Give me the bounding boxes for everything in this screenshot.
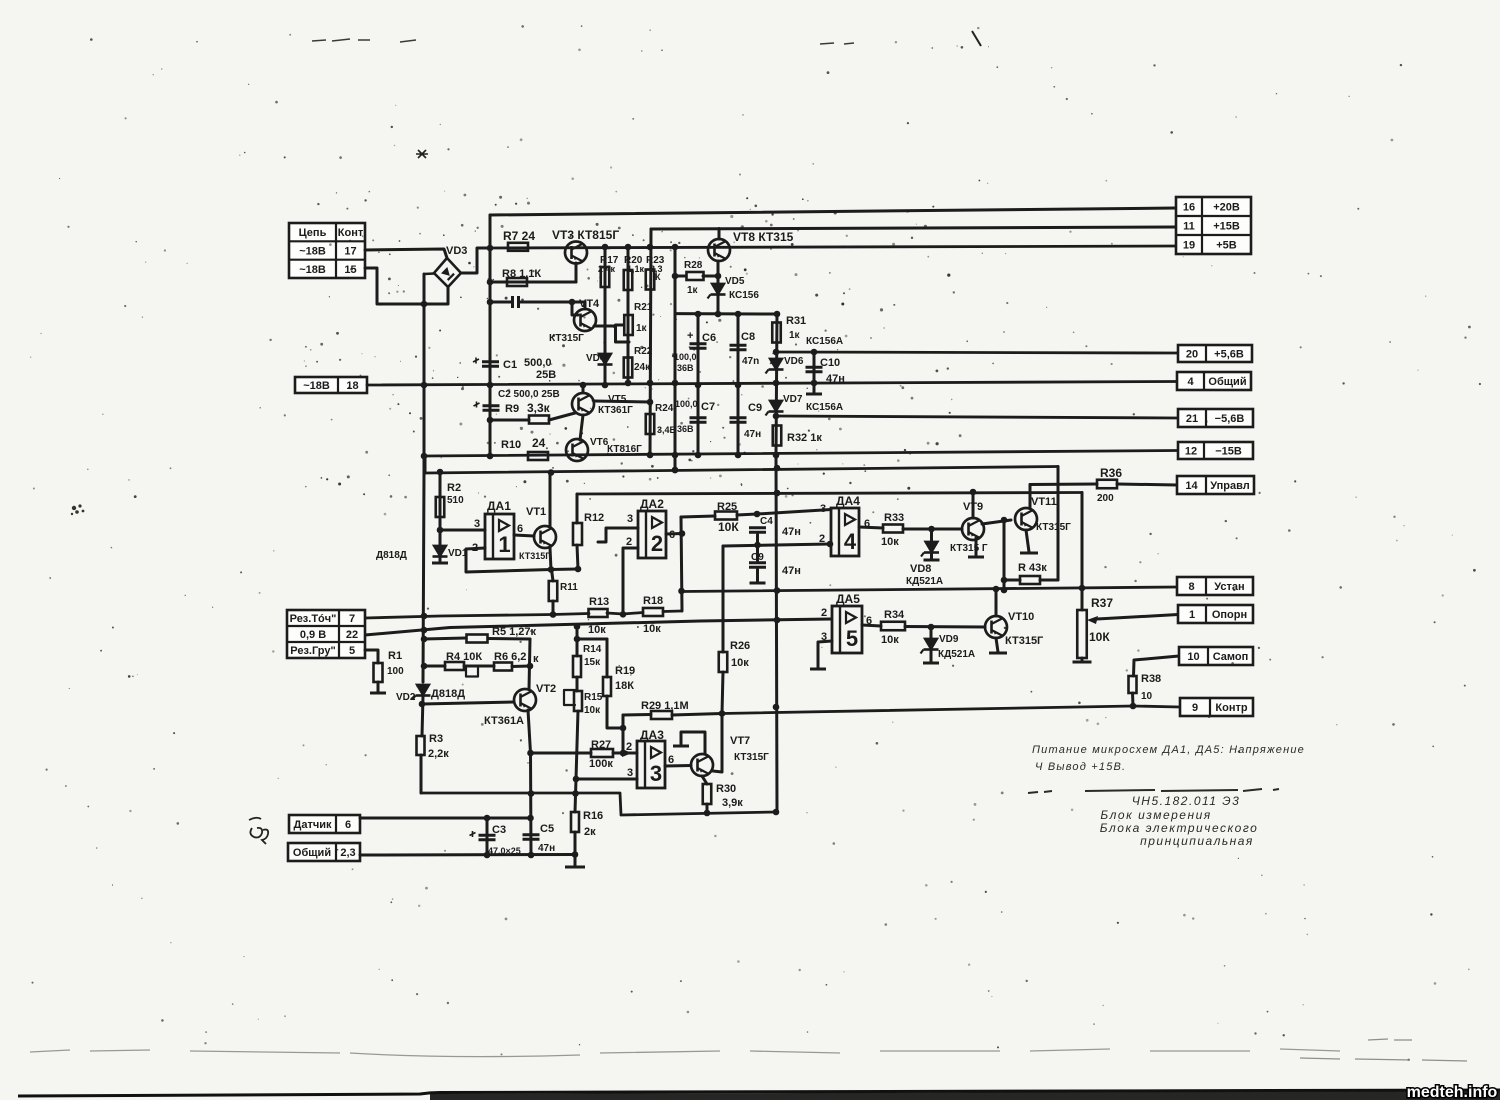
resistor R18 [643, 608, 663, 616]
resistor R27 [591, 749, 613, 757]
connector 10 samop [1179, 647, 1253, 665]
wire left bus vertical [424, 272, 434, 275]
junction dots R17 column [602, 244, 609, 389]
wire DA3 out [665, 764, 691, 768]
resistor R28 [687, 272, 704, 280]
wire DA4 pin2 line [723, 544, 830, 546]
wire R29 line [623, 713, 651, 717]
wire base line VT4 [490, 301, 511, 304]
resistor R21 [624, 315, 633, 335]
wire R19 col [606, 639, 609, 677]
wire samop [1134, 656, 1180, 676]
wire VD9 drop [930, 627, 933, 638]
wire y493 line [577, 493, 1082, 495]
wire DA5 pin3 stub [818, 641, 832, 668]
svg-text:КТ361А: КТ361А [484, 715, 524, 727]
svg-text:КТ361Г: КТ361Г [598, 405, 633, 416]
svg-text:R31: R31 [786, 315, 806, 327]
svg-text:VT2: VT2 [536, 683, 556, 695]
svg-text:24: 24 [532, 436, 546, 450]
svg-text:18К: 18К [615, 680, 634, 692]
junction VD8 [928, 526, 935, 533]
wire R19 bottom jog [607, 696, 623, 728]
svg-text:100к: 100к [589, 758, 613, 770]
diode VD4 [598, 354, 613, 365]
svg-text:4: 4 [844, 529, 857, 554]
junction VT1 emitter [548, 566, 582, 573]
wire VD8 drop [930, 529, 933, 541]
svg-text:С10: С10 [820, 357, 840, 369]
wire R30 bottom [706, 804, 709, 813]
wire R5 right [488, 637, 530, 641]
wire +5V rail [490, 246, 1176, 248]
resistor R3 [417, 736, 425, 755]
wire VT5 emitter up [582, 385, 585, 392]
svg-text:КТ315Г: КТ315Г [1036, 522, 1071, 533]
svg-text:R7 24: R7 24 [503, 229, 535, 243]
transistor VT7 [691, 754, 713, 776]
wire VT9 emitter wire [982, 520, 1011, 524]
ground stub VT9 [968, 556, 984, 559]
junction DA3 pin3 [573, 776, 580, 783]
svg-text:~18В: ~18В [299, 246, 326, 258]
wire bottom rail left [421, 793, 776, 815]
connector Obshiy pin 2,3 [288, 843, 360, 861]
svg-text:0,9 В: 0,9 В [300, 629, 326, 641]
wire R36 line [1030, 483, 1097, 487]
svg-text:С1: С1 [503, 359, 517, 371]
resistor R16 [571, 812, 579, 832]
asterisk mark [416, 150, 428, 158]
wire x776 long vertical [776, 455, 777, 812]
wire VT11 collector [1029, 485, 1032, 509]
wire VT3 emitter [575, 263, 578, 282]
junction C8 [735, 382, 742, 459]
svg-text:ДА5: ДА5 [836, 592, 860, 606]
svg-text:VT3 КТ815Г: VT3 КТ815Г [552, 228, 619, 242]
wire C10 stub [813, 383, 816, 393]
svg-text:7: 7 [349, 613, 355, 625]
svg-text:10к: 10к [643, 623, 661, 635]
junction R38 bottom [1130, 703, 1137, 710]
wire common rail [367, 382, 1177, 386]
wire R37 bottom [1081, 658, 1084, 661]
svg-text:3: 3 [650, 761, 662, 786]
wire VD9 stub [930, 650, 933, 662]
svg-text:R9: R9 [505, 403, 519, 415]
svg-text:10к: 10к [588, 624, 606, 636]
wire DA2 pin3 stub [598, 528, 638, 542]
svg-text:10К: 10К [718, 520, 739, 534]
junction DA2 out [679, 530, 686, 537]
ground stub VT7 bracket [673, 745, 689, 748]
svg-text:R12: R12 [584, 512, 604, 524]
svg-text:200: 200 [1097, 493, 1114, 504]
wire x1082 vertical [1081, 493, 1084, 611]
svg-text:VD6: VD6 [784, 356, 804, 367]
svg-text:2,2к: 2,2к [428, 748, 449, 760]
ground stub VD8 [924, 559, 940, 562]
wire left bus x=424 [423, 274, 426, 473]
op-amp DA2 [638, 511, 666, 558]
wire R31 col [776, 314, 777, 455]
resistor R35 [1020, 576, 1040, 584]
op-amp DA1 [485, 514, 514, 559]
svg-text:Опорн: Опорн [1212, 609, 1247, 621]
svg-text:VD8: VD8 [910, 563, 931, 575]
svg-text:+15В: +15В [1213, 221, 1240, 233]
svg-text:100,0: 100,0 [674, 352, 697, 362]
transistor VT1 [534, 526, 556, 548]
svg-text:ДА2: ДА2 [640, 497, 664, 511]
diode VD1 [433, 546, 448, 557]
svg-text:принципиальная: принципиальная [1140, 834, 1254, 848]
wire C9b col [756, 545, 759, 561]
extra shadow fragment right [1300, 1039, 1467, 1061]
resistor R29 [651, 711, 672, 719]
junction R11 [550, 611, 557, 618]
resistor R4 [445, 662, 464, 670]
svg-text:VT10: VT10 [1008, 611, 1034, 623]
arrow R37 wiper [1087, 616, 1098, 624]
wire datchik [360, 817, 531, 820]
wire feedback to R12 [551, 568, 578, 572]
wire VD8 stub [930, 553, 933, 559]
transistor VT9 [962, 518, 984, 540]
wire -5.6V rail [776, 416, 1178, 418]
resistor R8 [507, 278, 527, 286]
resistor R38 [1129, 676, 1137, 693]
wire DA1 out [514, 535, 534, 536]
capacitor C5 [523, 835, 540, 840]
wire R5 line [424, 638, 466, 639]
svg-text:КТ315 Г: КТ315 Г [950, 543, 988, 554]
wire VT7 collector bracket [681, 732, 705, 754]
wire C4 bottom [756, 535, 759, 546]
svg-text:2: 2 [626, 536, 632, 548]
svg-text:VT11: VT11 [1031, 496, 1057, 508]
zener VD6 [766, 359, 784, 374]
svg-text:R24: R24 [655, 403, 674, 414]
svg-text:36В: 36В [677, 363, 694, 373]
svg-text:10: 10 [1187, 651, 1199, 663]
capacitor C3 [470, 831, 496, 840]
wire R6 right [512, 665, 530, 669]
wire R14 col [576, 627, 579, 657]
resistor R26 [719, 652, 728, 672]
junction DA4 pin2 [827, 541, 834, 548]
ground stub VD9 [923, 662, 939, 665]
ground stub R16 [565, 866, 585, 869]
wire DA2 pin2 drop [623, 548, 638, 614]
wire R28 right [703, 275, 718, 278]
wire obshiy [360, 853, 575, 857]
svg-text:3: 3 [627, 513, 633, 525]
wire R29 left drop [622, 715, 625, 753]
svg-text:22: 22 [346, 629, 358, 641]
junction dots rails left [421, 613, 581, 634]
svg-text:3: 3 [820, 503, 826, 515]
junction DA2 pin2 [620, 611, 627, 618]
connector 21 -5.6V [1178, 409, 1253, 427]
resistor R15 [574, 691, 582, 711]
junction R2 col [437, 527, 444, 534]
transistor VT6 [566, 439, 588, 461]
svg-text:R18: R18 [643, 595, 663, 607]
svg-text:R34: R34 [884, 609, 905, 621]
wire R36 right [1117, 484, 1177, 485]
svg-text:1к: 1к [636, 323, 648, 334]
wire DA2 out [666, 532, 682, 536]
connector Datchik pin6 [289, 815, 360, 833]
wire R8 [490, 281, 576, 284]
connector 4 obshiy [1177, 372, 1251, 390]
junction C10 [811, 349, 818, 387]
connector 12 -15V [1178, 442, 1253, 459]
note underline [1028, 789, 1279, 793]
resistor R22 [624, 358, 633, 378]
wire VT11 emitter [1026, 530, 1029, 552]
svg-text:VT7: VT7 [730, 735, 750, 747]
wire R35 node drop [1003, 520, 1006, 590]
capacitor C9 [730, 418, 747, 423]
wire DA1 pin3 [440, 529, 485, 532]
wire R11 top [552, 570, 554, 582]
connector 14 upravl [1177, 476, 1254, 494]
svg-text:КС156А: КС156А [806, 402, 843, 413]
svg-text:R19: R19 [615, 665, 635, 677]
wire rail y314 [675, 312, 777, 315]
svg-text:47n: 47n [742, 356, 759, 367]
svg-text:R5 1,27к: R5 1,27к [492, 626, 537, 638]
svg-text:+20В: +20В [1213, 202, 1240, 214]
ground stub VT11 [1020, 552, 1038, 555]
wire DA5 out [862, 625, 881, 626]
connector pin 18 ~18V [295, 377, 367, 393]
wire R16 col [575, 779, 576, 812]
wire rail rez-toch [365, 614, 589, 619]
wire R27 to pin2 [613, 752, 637, 755]
resistor R32 [773, 426, 782, 446]
wire main vertical x=490 [489, 215, 492, 456]
connector 9 kontr [1180, 698, 1253, 716]
svg-text:47н: 47н [744, 429, 761, 440]
svg-text:R10: R10 [501, 439, 521, 451]
svg-text:R30: R30 [716, 783, 736, 795]
resistor R14 [573, 656, 581, 677]
svg-text:6: 6 [668, 754, 674, 766]
arrow into DA3 pin2 [622, 749, 632, 757]
transistor VT10 [985, 616, 1007, 638]
svg-text:VD4: VD4 [586, 353, 606, 364]
svg-text:С7: С7 [701, 401, 715, 413]
capacitor C4 [749, 528, 766, 533]
wire x682 vertical [681, 517, 682, 611]
resistor R31 [772, 323, 781, 343]
svg-text:~18В: ~18В [303, 380, 330, 392]
wire C6 col [697, 314, 700, 455]
svg-text:+5,6В: +5,6В [1214, 349, 1244, 361]
svg-text:R33: R33 [884, 512, 904, 524]
wire DA4 out [859, 527, 883, 528]
svg-text:2: 2 [821, 607, 827, 619]
svg-text:КТ816Г: КТ816Г [607, 444, 642, 455]
resistor R17 [601, 267, 610, 287]
wire VT4 emitter [594, 325, 615, 328]
smudge top left margin [312, 39, 854, 44]
wire left bus lower2 [422, 696, 423, 736]
junction dots left bus [421, 301, 428, 460]
junction C4 top [754, 511, 761, 518]
wire R29 right [672, 714, 722, 716]
bottom right black bar [430, 1091, 1500, 1100]
wire ustan rail [681, 587, 1178, 592]
svg-text:VD3: VD3 [446, 245, 467, 257]
zener VD7 [766, 401, 784, 416]
svg-text:VD5: VD5 [725, 276, 745, 287]
junction ustan rail [993, 585, 1086, 593]
svg-text:Общий: Общий [293, 847, 331, 859]
wire pin17 to bridge VD3 top [365, 249, 447, 258]
wire VT5 collector right [594, 401, 650, 402]
junction R26 bottom [719, 710, 726, 717]
wire VT7 emitter [702, 776, 707, 784]
connector Rez/0.9V/RezGru [287, 610, 365, 658]
svg-text:ДА1: ДА1 [487, 499, 511, 513]
svg-text:КТ315Г: КТ315Г [734, 752, 769, 763]
svg-text:9: 9 [1192, 702, 1198, 714]
resistor R24 [646, 414, 655, 434]
svg-text:+5В: +5В [1216, 240, 1237, 252]
capacitor C9b [749, 563, 766, 568]
wire oporn line [1097, 615, 1178, 620]
resistor R5 [467, 635, 488, 643]
svg-text:С9: С9 [751, 552, 764, 563]
transistor VT11 [1015, 508, 1037, 530]
svg-text:С2 500,0 25В: С2 500,0 25В [498, 389, 560, 400]
svg-text:С9: С9 [748, 402, 762, 414]
ink blob left [71, 504, 85, 515]
wire x530 vert upper [529, 639, 530, 689]
svg-text:1: 1 [1189, 609, 1195, 621]
junction dots rail314 [695, 311, 781, 318]
resistor R34 [881, 622, 905, 631]
wire VT10 emitter [996, 638, 998, 652]
svg-text:R11: R11 [560, 582, 578, 593]
wire R12 top [576, 494, 579, 523]
svg-text:5: 5 [846, 626, 858, 651]
svg-text:Конт: Конт [338, 227, 364, 239]
svg-text:Устан: Устан [1214, 581, 1244, 593]
ground stub R37 [1073, 661, 1092, 664]
svg-text:17: 17 [344, 246, 356, 258]
svg-text:10к: 10к [881, 536, 899, 548]
svg-text:Датчик: Датчик [294, 819, 332, 831]
svg-text:16: 16 [1183, 202, 1195, 214]
svg-text:15к: 15к [584, 657, 601, 668]
resistor R19 [603, 677, 611, 696]
svg-text:R38: R38 [1141, 673, 1161, 685]
wire R4 line [424, 665, 445, 668]
wire VT4 base jog [572, 302, 578, 315]
wire C10 col [813, 352, 816, 383]
wire R21 wiper jog [616, 325, 630, 342]
bottom page edge dark line [18, 1090, 1500, 1096]
svg-text:ЧН5.182.011 Э3: ЧН5.182.011 Э3 [1132, 794, 1241, 808]
wire R26 col [722, 546, 725, 652]
wire VT1 collector [549, 473, 552, 526]
junction dots x=490 [487, 245, 494, 460]
resistor R13 [589, 609, 608, 617]
svg-text:10к: 10к [731, 657, 749, 669]
svg-text:500,0: 500,0 [524, 357, 552, 369]
junction R16 obshiy [572, 851, 579, 858]
wire R3 bottom [420, 755, 423, 793]
wire R12 bottom [577, 545, 578, 569]
svg-text:3,9к: 3,9к [722, 797, 743, 809]
junction R27 left [527, 750, 534, 757]
svg-text:−15В: −15В [1215, 446, 1242, 458]
svg-text:47,0×25: 47,0×25 [488, 846, 521, 856]
op-amp DA5 [832, 606, 862, 653]
junction R31 col [773, 349, 780, 459]
svg-text:R13: R13 [589, 596, 609, 608]
svg-text:R28: R28 [684, 260, 703, 271]
connector 1 oporn [1178, 605, 1253, 623]
wire C5 col [529, 753, 533, 855]
connector X1 rows ~18V pins 17/15 [289, 223, 365, 278]
scribble 65 left [249, 818, 268, 844]
svg-text:R3: R3 [429, 733, 443, 745]
junction VD9 [928, 624, 935, 631]
svg-text:Рез.Тóч": Рез.Тóч" [290, 613, 337, 625]
wire R2 col [439, 472, 442, 545]
svg-text:VD7: VD7 [783, 394, 803, 405]
wire R17 column [604, 247, 607, 385]
wire VT9 collector [972, 492, 975, 518]
svg-text:Цепь: Цепь [299, 227, 327, 239]
page edge shadow line [30, 1049, 1340, 1057]
svg-text:5: 5 [349, 645, 355, 657]
junction datchik [484, 815, 534, 822]
wire -15V rail [424, 451, 1178, 457]
svg-text:С3: С3 [492, 824, 506, 836]
svg-text:8: 8 [1188, 581, 1194, 593]
ground stub VT10 [989, 652, 1007, 655]
wire rail rez-toch b [607, 613, 643, 615]
svg-text:R36: R36 [1100, 466, 1122, 480]
wire R11 bottom [552, 601, 555, 614]
wire rail 0.9V [365, 619, 831, 635]
svg-text:КТ315Г: КТ315Г [1005, 635, 1044, 647]
resistor R36 [1097, 480, 1117, 489]
svg-text:R1: R1 [388, 650, 402, 662]
wire bus x=675 [674, 247, 677, 470]
wire +15V rail [651, 227, 1176, 229]
transistor VT2 [514, 689, 536, 711]
svg-text:К: К [655, 272, 661, 282]
junction dots x675 [672, 244, 679, 474]
svg-text:R32 1к: R32 1к [787, 432, 822, 444]
svg-text:1к: 1к [687, 285, 699, 296]
junction dots R23 col [647, 244, 654, 459]
svg-text:10К: 10К [1089, 630, 1110, 644]
junction C4 bottom [754, 542, 761, 549]
svg-text:12: 12 [1185, 446, 1197, 458]
svg-text:11: 11 [1183, 221, 1195, 233]
resistor R20 [624, 270, 633, 290]
svg-text:R27: R27 [591, 739, 611, 751]
